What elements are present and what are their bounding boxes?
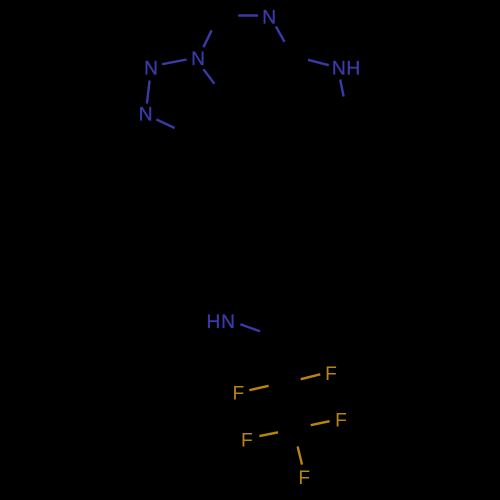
svg-text:F: F bbox=[325, 364, 337, 385]
svg-text:N: N bbox=[139, 105, 153, 126]
svg-text:F: F bbox=[233, 383, 245, 404]
svg-text:F: F bbox=[298, 468, 310, 489]
svg-text:NH: NH bbox=[332, 58, 361, 79]
svg-text:N: N bbox=[262, 7, 276, 28]
svg-text:N: N bbox=[144, 58, 158, 79]
svg-text:F: F bbox=[241, 431, 253, 452]
svg-text:N: N bbox=[191, 49, 205, 70]
svg-text:F: F bbox=[335, 411, 347, 432]
svg-text:HN: HN bbox=[207, 312, 236, 333]
